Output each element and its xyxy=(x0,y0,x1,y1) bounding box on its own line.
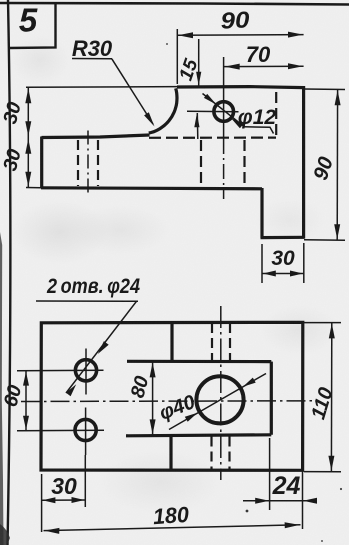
dim 24: dimension line with outside arrows xyxy=(243,498,317,504)
plan view: outer rectangle xyxy=(41,322,303,470)
border left line xyxy=(8,0,11,545)
plan view: hidden phi12 hole right (dashed upper) xyxy=(229,323,231,360)
front view: step bottom extension to right dim xyxy=(304,239,345,242)
front view: hidden line left (dashed) xyxy=(200,140,202,187)
dim 80: dimension line with arrows xyxy=(150,362,156,436)
dim 180: label xyxy=(152,502,190,530)
label 2 holes phi24 xyxy=(46,275,140,298)
phi40 label xyxy=(156,391,198,425)
phi12 label xyxy=(238,106,276,129)
dim 60: dimension line with arrows xyxy=(23,371,29,431)
dim 70: dimension line with arrows xyxy=(224,63,304,69)
dim 30 upper-left label xyxy=(0,100,26,127)
hole phi24 upper crosshair xyxy=(17,349,104,395)
plan view: slot bottom edge xyxy=(126,435,271,436)
dim 90 right: label xyxy=(309,154,338,183)
front view: base top edge xyxy=(42,135,150,138)
hole phi12 circle xyxy=(214,102,234,122)
dim 110: dimension line with arrows xyxy=(328,323,334,472)
front view: hidden phi24 holes left edge (dashed) xyxy=(77,140,79,186)
plan view: slot top edge xyxy=(127,360,271,364)
dims 30/30 left: dimension line xyxy=(25,88,31,188)
dim 70: label xyxy=(246,42,271,67)
border top line xyxy=(0,3,349,5)
front view: wall top edge xyxy=(177,87,304,88)
phi12 leader line xyxy=(203,94,274,134)
R30 underline and leader arrow xyxy=(72,59,155,127)
dim 24: label xyxy=(272,472,301,500)
dim 90 top: extension line left xyxy=(176,29,178,84)
front view: step bottom edge xyxy=(261,236,305,240)
dim 110: extension lines xyxy=(304,323,341,472)
dim 15: upper line with down arrow xyxy=(196,39,201,86)
dim 90 right: dimension line with arrows xyxy=(334,90,340,241)
dim 30 step: extension lines xyxy=(262,243,304,283)
phi24 leader underline and diagonal xyxy=(36,301,138,396)
scan shadow bottom-left corner xyxy=(0,524,10,545)
dim 30 bottom: label xyxy=(51,473,77,499)
plan view: horizontal centerline xyxy=(21,400,312,403)
ink specks xyxy=(166,43,342,542)
scan shadow left edge xyxy=(0,232,4,545)
phi40 diagonal leader with arrows xyxy=(169,374,266,430)
front view: base bottom extension line xyxy=(26,187,41,189)
dim 110: label xyxy=(307,385,337,422)
hole phi12 vertical centerline xyxy=(223,57,225,199)
front view: hidden line right (dashed) xyxy=(243,140,245,186)
dim 30 step: label xyxy=(271,247,295,270)
R30 label xyxy=(72,36,113,61)
plan view: hidden phi12 hole left (dashed lower) xyxy=(210,437,212,470)
plan view: wall band left edge upper xyxy=(170,323,173,362)
hole phi24 lower circle xyxy=(75,419,96,440)
plan view: hidden phi12 hole left (dashed upper) xyxy=(211,323,213,360)
dim 30 bottom: extension lines xyxy=(42,455,86,532)
dim 90 top: label xyxy=(220,6,251,33)
front view: extension line at wall top level (left) xyxy=(26,86,177,89)
dim 180: dimension line with arrows xyxy=(44,522,301,534)
front view: base left edge xyxy=(40,137,43,189)
front view: fillet R30 arc xyxy=(149,88,177,133)
front view: phi24 holes centerline xyxy=(87,131,89,196)
front view: hidden slot edge upper (dashed) xyxy=(275,92,277,136)
dim 30 lower-left label xyxy=(0,147,26,174)
dim 15: label xyxy=(176,56,203,83)
dim 30 step: dimension line with arrows xyxy=(262,271,304,277)
dim 30 bottom: dimension line with arrows xyxy=(42,497,86,503)
plan view: slot right edge xyxy=(270,362,273,435)
front view: right edge xyxy=(302,86,305,239)
plan view: hidden phi12 hole right (dashed lower) xyxy=(228,437,230,470)
front view: base bottom edge xyxy=(41,188,262,189)
front view: hidden phi24 holes right edge (dashed) xyxy=(97,140,99,186)
hole phi24 upper circle xyxy=(75,360,96,381)
dim 60: label xyxy=(0,383,26,410)
dim 15: lower line with up arrow xyxy=(194,113,199,139)
sheet number box xyxy=(9,3,56,48)
dim 80: label xyxy=(127,374,154,401)
front view: hidden base top edge (dashed) xyxy=(149,137,276,139)
dim 24: extension lines xyxy=(270,438,303,529)
front view: step left edge xyxy=(260,188,263,238)
hole phi40 circle xyxy=(196,376,243,423)
hole phi24 lower crosshair xyxy=(17,408,104,456)
front view: extension of top edge to right dim xyxy=(304,88,345,91)
sheet number 5 xyxy=(19,2,38,39)
dim 90 top: dimension line with arrows xyxy=(177,32,303,39)
plan view: vertical centerline xyxy=(220,306,222,480)
hole phi12 horizontal crosshair xyxy=(187,110,239,113)
plan view: wall band left edge lower xyxy=(169,436,172,471)
